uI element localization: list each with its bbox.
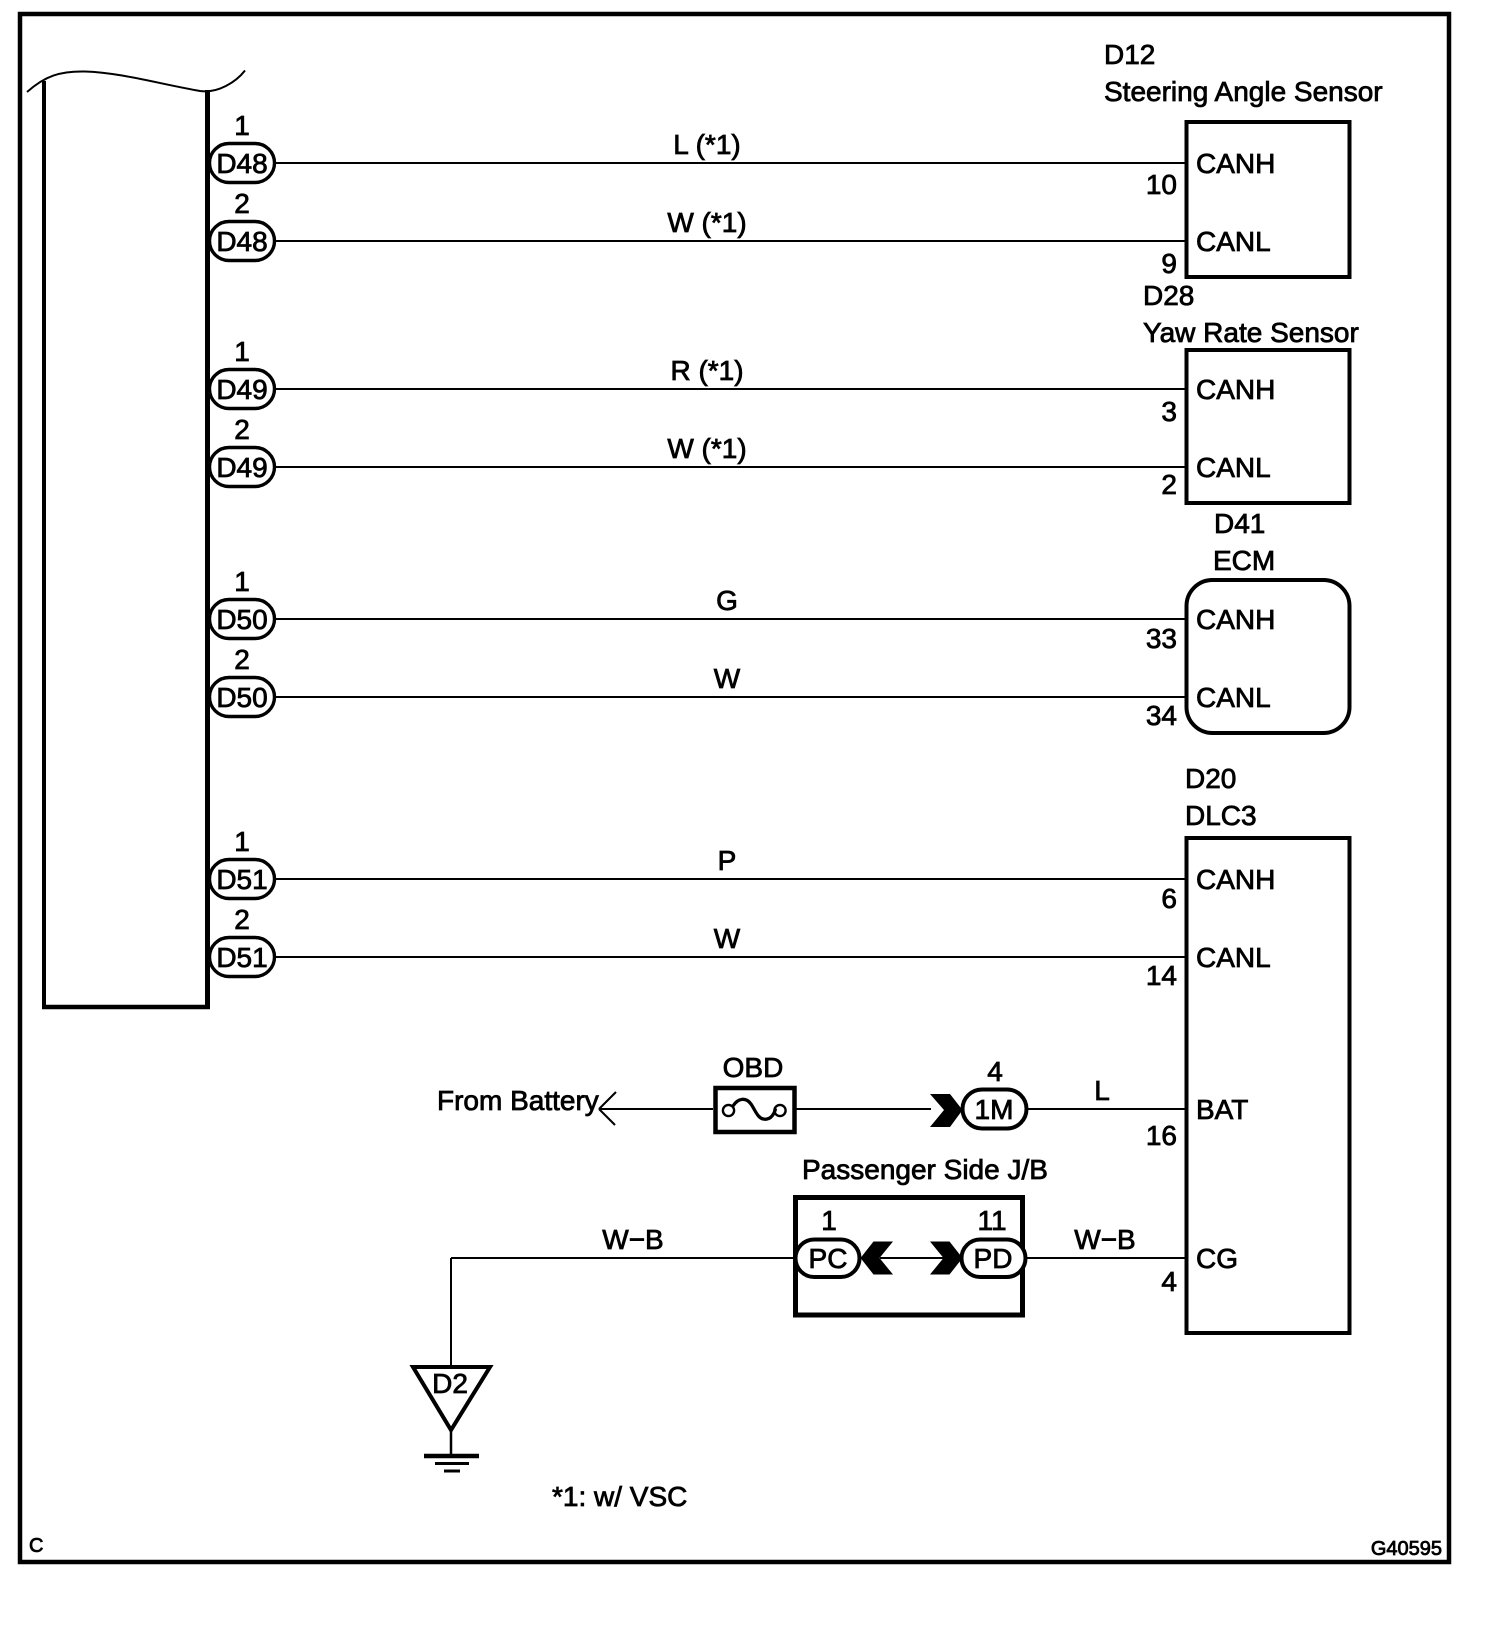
svg-text:1: 1 — [234, 110, 250, 141]
svg-text:3: 3 — [1161, 396, 1177, 427]
svg-text:PD: PD — [974, 1243, 1013, 1274]
svg-text:CANL: CANL — [1196, 682, 1271, 713]
svg-text:L (*1): L (*1) — [673, 129, 740, 160]
svg-text:CANL: CANL — [1196, 942, 1271, 973]
svg-text:1: 1 — [234, 566, 250, 597]
svg-text:1M: 1M — [975, 1094, 1014, 1125]
svg-text:1: 1 — [234, 336, 250, 367]
svg-text:34: 34 — [1146, 700, 1177, 731]
svg-text:9: 9 — [1161, 248, 1177, 279]
svg-text:1: 1 — [821, 1205, 837, 1236]
svg-text:CANH: CANH — [1196, 604, 1275, 635]
svg-text:D51: D51 — [216, 942, 267, 973]
svg-text:CG: CG — [1196, 1243, 1238, 1274]
svg-text:L: L — [1094, 1075, 1110, 1106]
svg-text:W: W — [714, 663, 741, 694]
svg-text:16: 16 — [1146, 1120, 1177, 1151]
svg-text:2: 2 — [234, 644, 250, 675]
svg-text:2: 2 — [1161, 469, 1177, 500]
svg-text:CANH: CANH — [1196, 374, 1275, 405]
svg-text:D12: D12 — [1104, 39, 1155, 70]
svg-text:BAT: BAT — [1196, 1094, 1248, 1125]
svg-text:11: 11 — [977, 1205, 1006, 1236]
svg-text:DLC3: DLC3 — [1185, 800, 1257, 831]
svg-text:4: 4 — [1161, 1266, 1177, 1297]
svg-text:D48: D48 — [216, 226, 267, 257]
svg-text:P: P — [718, 845, 737, 876]
svg-text:From Battery: From Battery — [437, 1085, 599, 1116]
svg-text:CANH: CANH — [1196, 148, 1275, 179]
svg-text:W (*1): W (*1) — [667, 433, 746, 464]
svg-text:10: 10 — [1146, 169, 1177, 200]
svg-text:C: C — [29, 1535, 43, 1557]
svg-text:Passenger Side J/B: Passenger Side J/B — [802, 1154, 1048, 1185]
svg-text:CANL: CANL — [1196, 452, 1271, 483]
svg-text:Yaw Rate Sensor: Yaw Rate Sensor — [1143, 317, 1359, 348]
svg-text:G40595: G40595 — [1371, 1538, 1442, 1560]
svg-text:G: G — [716, 585, 738, 616]
svg-text:W: W — [714, 923, 741, 954]
svg-text:CANH: CANH — [1196, 864, 1275, 895]
svg-text:1: 1 — [234, 826, 250, 857]
svg-text:D49: D49 — [216, 374, 267, 405]
svg-text:14: 14 — [1146, 960, 1177, 991]
svg-text:W (*1): W (*1) — [667, 207, 746, 238]
svg-text:W−B: W−B — [602, 1224, 663, 1255]
svg-text:2: 2 — [234, 904, 250, 935]
svg-text:D28: D28 — [1143, 280, 1194, 311]
svg-text:D49: D49 — [216, 452, 267, 483]
svg-text:Steering Angle Sensor: Steering Angle Sensor — [1104, 76, 1383, 107]
svg-text:33: 33 — [1146, 623, 1177, 654]
svg-text:D41: D41 — [1214, 508, 1265, 539]
svg-text:2: 2 — [234, 414, 250, 445]
svg-text:W−B: W−B — [1074, 1224, 1135, 1255]
svg-text:D50: D50 — [216, 604, 267, 635]
svg-text:ECM: ECM — [1213, 545, 1275, 576]
svg-text:D20: D20 — [1185, 763, 1236, 794]
svg-text:D50: D50 — [216, 682, 267, 713]
svg-text:R (*1): R (*1) — [670, 355, 743, 386]
svg-text:2: 2 — [234, 188, 250, 219]
svg-text:6: 6 — [1161, 883, 1177, 914]
svg-text:D48: D48 — [216, 148, 267, 179]
svg-text:CANL: CANL — [1196, 226, 1271, 257]
svg-text:*1: w/ VSC: *1: w/ VSC — [552, 1481, 687, 1512]
svg-text:4: 4 — [987, 1056, 1003, 1087]
svg-text:D51: D51 — [216, 864, 267, 895]
svg-text:OBD: OBD — [723, 1052, 784, 1083]
svg-text:D2: D2 — [432, 1368, 468, 1399]
svg-text:PC: PC — [809, 1243, 848, 1274]
